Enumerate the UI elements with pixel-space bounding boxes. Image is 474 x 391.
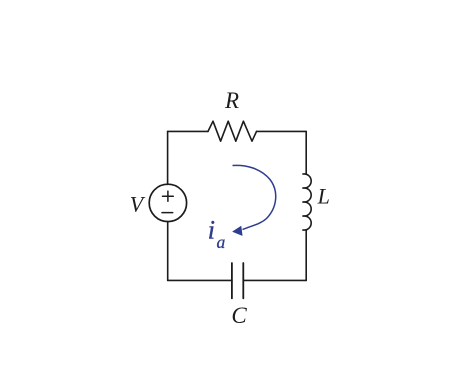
svg-text:i: i [208,216,215,245]
mesh current arrow i_a [233,165,276,235]
svg-text:C: C [231,303,247,328]
wire left side upper [167,131,169,184]
plus sign [163,191,174,201]
wire left side lower [167,221,169,280]
wire right side lower [305,230,307,280]
svg-text:L: L [317,184,330,209]
minus sign [162,212,173,214]
svg-text:a: a [217,232,226,252]
svg-text:R: R [224,88,239,113]
inductor L [303,174,311,230]
wire resistor to top-right corner [257,130,307,132]
wire bottom left segment [168,279,232,281]
capacitor C [242,263,244,298]
resistor R [208,121,257,141]
wire bottom right segment [243,279,306,281]
svg-text:V: V [130,191,146,216]
wire right side upper [305,131,307,174]
voltage source V [149,184,186,221]
wire top-left to resistor [168,130,208,132]
